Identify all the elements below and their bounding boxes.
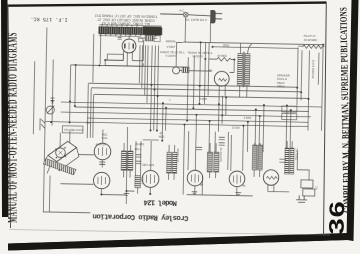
bus wire L7	[75, 107, 309, 111]
labels near V1	[160, 39, 213, 58]
svg-text:PLUG &: PLUG &	[277, 77, 287, 81]
switch marks lower left	[40, 118, 45, 130]
svg-text:COIL: COIL	[102, 137, 109, 140]
svg-text:AERIAL: AERIAL	[166, 39, 177, 43]
svg-text:-80: -80	[208, 69, 213, 73]
wire band to loop	[93, 34, 101, 83]
wire: V1 pins down	[123, 51, 132, 66]
svg-text:2850Ω: 2850Ω	[277, 84, 285, 88]
svg-text:Model 124: Model 124	[143, 198, 177, 207]
tube V3	[93, 172, 110, 189]
bus wire L2	[183, 42, 324, 45]
svg-text:V-22070: V-22070	[192, 54, 203, 58]
svg-text:40 MFD: 40 MFD	[217, 54, 227, 58]
svg-text:MEG: MEG	[159, 136, 165, 139]
link coupling circle	[173, 67, 180, 74]
bottom wire runs	[126, 127, 135, 204]
interstage transformer T6	[252, 145, 257, 170]
band top rail	[99, 25, 162, 26]
band selector coil assembly (hatched band)	[99, 27, 162, 35]
AC plug	[160, 9, 222, 23]
link coupling box	[182, 67, 189, 73]
tube V1 (1st det-osc)	[122, 39, 136, 53]
bus wire L4	[91, 88, 301, 92]
svg-text:36: 36	[325, 200, 349, 234]
output transformer T7	[285, 148, 289, 174]
note text block (3 lines, upside down)	[95, 14, 158, 26]
right margin credit text	[337, 7, 352, 213]
extra small labels	[86, 96, 252, 143]
coil end shield block	[143, 26, 162, 35]
right column wires	[296, 44, 323, 130]
left corner verticals from nested buses	[87, 84, 94, 139]
svg-text:MANUAL OF MOST-OFTEN-NEEDED RA: MANUAL OF MOST-OFTEN-NEEDED RADIO DIAGRA…	[7, 32, 21, 223]
bus wire L5	[94, 94, 309, 98]
cord connector circle	[183, 12, 188, 17]
tube V4 (DET-2 24)	[142, 170, 159, 187]
cap between V7 and T7	[279, 159, 286, 162]
field resistor boxes	[282, 106, 297, 112]
svg-text:10,000: 10,000	[232, 126, 240, 129]
inner frame right border	[324, 3, 327, 235]
cap pair above V5b	[219, 137, 225, 145]
label right of T7	[295, 147, 298, 160]
svg-text:AMP-24: AMP-24	[96, 142, 107, 146]
right mid vertical wires	[218, 96, 291, 172]
speaker symbol below	[296, 195, 307, 202]
svg-text:45: 45	[242, 184, 246, 188]
volume control box	[62, 126, 83, 133]
bus wire L8	[61, 112, 311, 117]
wire plug to line	[185, 17, 211, 43]
svg-text:8 MFD: 8 MFD	[200, 98, 208, 101]
AF transformer T3	[167, 152, 172, 173]
tuning gang (diagonal chassis box)	[43, 130, 95, 184]
svg-text:45: 45	[200, 183, 204, 187]
svg-text:NO. 2157B 110 V.: NO. 2157B 110 V.	[185, 18, 208, 22]
wire drops from coil labels	[139, 45, 148, 103]
wire drops left of rectifier	[204, 42, 209, 104]
mid vertical wires	[150, 41, 200, 141]
bus wire L3	[88, 83, 297, 87]
inner frame bottom border	[9, 230, 330, 236]
right black edge bar	[347, 0, 359, 241]
svg-text:FIELD: FIELD	[277, 81, 285, 85]
bottom black edge bar	[8, 233, 354, 251]
left black edge bar	[1, 0, 9, 217]
svg-text:25,000Ω 1/4 W: 25,000Ω 1/4 W	[311, 59, 315, 78]
power transformer T4	[237, 54, 242, 86]
wire: small rect loop below V1	[107, 54, 123, 60]
bus wire L9	[87, 118, 308, 122]
bus wire L10	[45, 122, 308, 127]
interstage transformer T5	[207, 152, 212, 172]
band bottom rail	[99, 35, 140, 38]
svg-text:DET-2 24: DET-2 24	[142, 163, 154, 167]
left margin title text	[7, 32, 21, 223]
svg-text:VOLUME CONT: VOLUME CONT	[64, 128, 84, 132]
svg-text:I.F. 175 KC.: I.F. 175 KC.	[30, 15, 67, 22]
svg-text:OUTPUT TR: OUTPUT TR	[220, 147, 223, 161]
grid cap box right of V1	[145, 35, 153, 41]
pilot resistor zigzag	[303, 45, 323, 49]
svg-text:V-22070: V-22070	[165, 54, 176, 58]
potentiometer	[46, 106, 54, 114]
rightmost bottom tube V7	[263, 170, 279, 186]
speaker field label block	[277, 73, 290, 88]
ground marks	[192, 192, 241, 195]
inner frame top border	[7, 3, 327, 6]
V1 grid cap lead	[128, 34, 130, 40]
band terminal box	[138, 38, 143, 42]
svg-text:SW: SW	[86, 122, 91, 125]
inner frame left border	[8, 5, 11, 228]
cap column labels	[136, 155, 142, 164]
page number 36	[325, 200, 349, 234]
coil terminal ticks	[101, 33, 156, 37]
svg-text:V-DET: V-DET	[167, 45, 176, 49]
bus wire L6	[61, 102, 322, 107]
trimmer box right	[154, 36, 160, 42]
rectifier tube V6	[214, 71, 229, 86]
bus wire L1	[71, 65, 187, 67]
wire: loop left of V1	[105, 40, 143, 67]
svg-text:.5 MFD: .5 MFD	[243, 117, 251, 120]
svg-text:A.C.: A.C.	[179, 8, 185, 12]
tube V2 (V-AMP 24)	[94, 143, 111, 160]
IF transformer T2	[121, 151, 126, 171]
speaker terminal blocks	[301, 180, 313, 188]
trimmer stubs above band	[102, 24, 137, 27]
svg-text:150Ω: 150Ω	[223, 43, 230, 47]
output tube V5b	[229, 171, 245, 187]
svg-text:V.C.: V.C.	[315, 185, 318, 190]
wires into R1	[135, 141, 141, 194]
wire gang to bottom rail	[43, 175, 91, 212]
svg-text:2200Ω V.C.: 2200Ω V.C.	[295, 147, 298, 160]
output tube V5a	[187, 170, 203, 186]
svg-text:A.F. TRANS: A.F. TRANS	[177, 148, 180, 162]
resistor above rectifier	[217, 57, 232, 61]
svg-text:PILOT LT.: PILOT LT.	[304, 34, 317, 38]
svg-text:40-40 MFD: 40-40 MFD	[304, 38, 318, 42]
antenna ticks	[50, 98, 54, 103]
bus wire L2b	[213, 47, 298, 49]
pilot light label	[304, 34, 318, 42]
vertical small text 1/4 W	[311, 59, 315, 78]
wire: nested loop horizontals	[105, 63, 143, 67]
svg-text:SPEAKER: SPEAKER	[277, 73, 290, 77]
left long wires	[32, 27, 77, 213]
interstage cap	[99, 162, 105, 164]
resistor R1 vertical	[135, 176, 141, 188]
